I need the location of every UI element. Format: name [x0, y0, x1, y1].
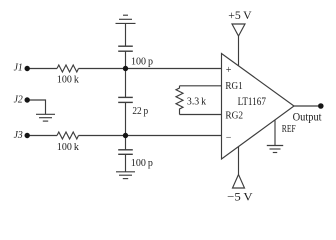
svg-text:RG1: RG1	[225, 80, 242, 92]
svg-text:LT1167: LT1167	[238, 94, 266, 108]
power symbol -5V triangle	[233, 175, 245, 189]
svg-text:J1: J1	[14, 62, 23, 73]
wire R1 to + pin	[79, 68, 222, 70]
ground G1 (J2)	[36, 114, 55, 121]
output terminal dot	[318, 103, 324, 109]
wire -5V supply	[238, 147, 240, 175]
wire C2 to node B	[125, 102, 127, 135]
svg-text:100 k: 100 k	[57, 73, 80, 85]
capacitor C1 100p	[118, 46, 133, 51]
svg-text:J2: J2	[14, 95, 23, 106]
terminal dot J3	[25, 133, 30, 138]
node B junction dot	[123, 133, 128, 138]
wire C1 to node A	[125, 51, 127, 68]
wire node A to C2	[125, 69, 127, 98]
wire REF pin	[274, 120, 276, 146]
svg-text:3.3 k: 3.3 k	[187, 96, 207, 108]
wire node B to C3	[125, 136, 127, 150]
svg-text:+5 V: +5 V	[228, 8, 252, 22]
terminal dot J1	[25, 66, 30, 71]
wire RG1 stub	[180, 85, 222, 87]
svg-text:−5 V: −5 V	[227, 189, 253, 203]
svg-text:100 p: 100 p	[131, 55, 153, 67]
resistor R2 100k	[57, 132, 78, 139]
svg-text:J3: J3	[14, 130, 23, 141]
wire C3 to ground	[125, 154, 127, 172]
svg-text:Output: Output	[293, 112, 323, 124]
capacitor C2 22p	[118, 97, 133, 102]
wire J1 horizontal	[27, 68, 57, 70]
wire output	[294, 105, 318, 107]
svg-text:REF: REF	[282, 124, 296, 135]
resistor R1 100k	[57, 65, 78, 72]
wire R2 to - pin	[79, 135, 222, 137]
svg-text:100 p: 100 p	[131, 157, 153, 169]
ground G4 (REF)	[267, 146, 283, 153]
wire RG2 stub	[180, 114, 222, 116]
power symbol +5V triangle	[232, 24, 245, 36]
ground G2 inverted (top of center column)	[116, 15, 136, 23]
capacitor C3 100p	[118, 150, 133, 155]
wire ground to C1	[125, 23, 127, 46]
terminal dot J2	[25, 97, 30, 102]
node A junction dot	[123, 66, 128, 71]
resistor R3 3.3k	[176, 86, 183, 115]
wire +5V supply	[238, 36, 240, 66]
op-amp U1 LT1167 triangle	[222, 54, 295, 160]
wire J3 horizontal	[27, 135, 57, 137]
svg-text:100 k: 100 k	[57, 141, 80, 153]
svg-text:−: −	[226, 133, 232, 144]
svg-text:+: +	[226, 65, 232, 76]
wire J2 stub	[27, 100, 46, 114]
svg-text:RG2: RG2	[225, 109, 243, 121]
ground G3 (bottom of center column)	[116, 172, 135, 179]
svg-text:22 p: 22 p	[132, 105, 148, 117]
